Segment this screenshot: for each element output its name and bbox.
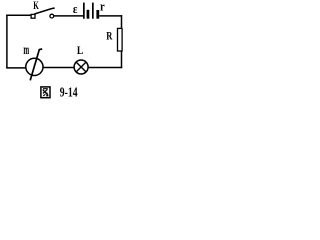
motor circle	[26, 58, 43, 75]
svg-text:9-14: 9-14	[60, 86, 78, 100]
lamp cross stroke 1	[76, 62, 86, 72]
wire battery to top-right corner	[99, 15, 122, 17]
switch left terminal (square)	[31, 14, 35, 18]
motor slash	[30, 49, 42, 81]
resistor R body	[118, 28, 123, 51]
lamp cross stroke 2	[76, 62, 86, 72]
wire lamp to motor	[43, 67, 74, 69]
svg-text:ε: ε	[73, 2, 78, 16]
wire right vertical upper (corner to resistor)	[121, 15, 123, 28]
svg-text:L: L	[77, 43, 83, 57]
switch lever	[34, 8, 54, 14]
wire bottom-left (corner to motor)	[6, 67, 26, 69]
caption character tu (boxed figure glyph)	[41, 87, 50, 98]
switch right terminal (circle)	[50, 14, 54, 18]
battery cell 2 short plate	[96, 10, 99, 19]
svg-text:r: r	[100, 0, 105, 13]
wire switch to battery	[54, 15, 83, 17]
battery cell 2 long plate	[92, 3, 94, 19]
battery cell 1 long plate	[83, 3, 85, 19]
lamp circle	[74, 60, 88, 74]
wire top-left horizontal (corner to switch)	[6, 14, 31, 16]
battery cell 1 short plate	[87, 10, 90, 19]
wire resistor to bottom-right corner	[121, 51, 123, 68]
wire bottom-right (corner to lamp)	[88, 67, 122, 69]
svg-text:R: R	[106, 28, 112, 42]
svg-text:m: m	[23, 43, 29, 58]
svg-text:K: K	[33, 0, 39, 12]
wire left vertical	[6, 15, 8, 69]
